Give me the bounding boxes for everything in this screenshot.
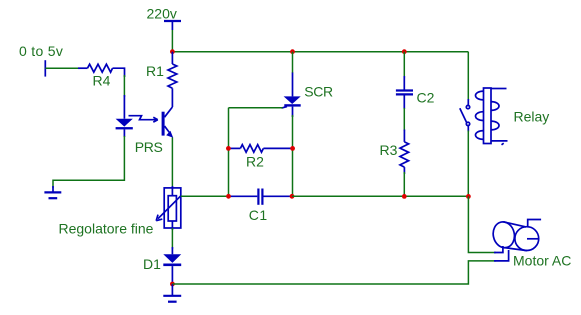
node junction D1-bottom rail: [170, 282, 175, 287]
SCR: [282, 52, 301, 117]
node junction R3 bottom: [402, 194, 407, 199]
wire C2 to R3: [403, 108, 405, 131]
wire trimmer to C1 node: [181, 195, 229, 197]
wire relay node down to motor: [468, 196, 496, 252]
svg-text:C2: C2: [417, 90, 435, 106]
svg-text:Motor AC: Motor AC: [513, 253, 571, 269]
wire motor lead B: [494, 250, 509, 261]
node junction relay branch bottom: [466, 194, 471, 199]
wire switch to bottom node: [467, 131, 469, 197]
wire gate node down: [228, 108, 230, 197]
capacitor C2: [396, 52, 413, 109]
wire input to R4: [45, 67, 80, 69]
220v supply terminal: [164, 21, 181, 30]
node junction R2 left: [226, 146, 231, 151]
wire LED cathode to ground: [53, 136, 124, 188]
svg-text:C1: C1: [249, 207, 268, 223]
node junction rail-C2: [402, 49, 407, 54]
input terminal tick: [44, 60, 46, 76]
svg-text:Regolatore fine: Regolatore fine: [59, 221, 154, 237]
capacitor C1: [230, 189, 290, 205]
svg-text:R1: R1: [146, 63, 164, 79]
resistor R4: [78, 64, 125, 77]
LED PRS (opto input): [116, 95, 133, 137]
relay coil: [475, 88, 507, 145]
wire bottom rail: [172, 261, 496, 284]
svg-text:R3: R3: [380, 142, 398, 158]
opto coupling arrow: [129, 116, 158, 122]
wire trimmer to D1: [171, 228, 173, 249]
svg-text:R4: R4: [93, 73, 111, 89]
wire emitter to trimmer: [171, 138, 173, 190]
svg-text:D1: D1: [143, 256, 161, 272]
node junction C1 right: [290, 194, 295, 199]
resistor R3: [400, 130, 409, 175]
svg-text:SCR: SCR: [304, 84, 333, 100]
motor AC: [491, 220, 541, 251]
resistor R1: [168, 52, 177, 107]
ground (bottom): [163, 284, 181, 302]
resistor R2: [229, 145, 292, 153]
svg-text:PRS: PRS: [135, 139, 163, 155]
ground (left): [44, 186, 61, 198]
svg-text:R2: R2: [246, 154, 264, 170]
switch (relay contact): [460, 99, 470, 132]
node junction rail-R1: [170, 49, 175, 54]
wire R4 to LED: [123, 75, 125, 97]
wire gate to node: [229, 107, 283, 109]
wire supply to rail: [171, 30, 173, 52]
wire motor lead A: [494, 246, 503, 253]
diode D1: [163, 247, 181, 284]
node junction R2 right: [290, 146, 295, 151]
node junction C1 left: [226, 194, 231, 199]
wire C1 to R3 node: [292, 195, 404, 197]
svg-text:Relay: Relay: [514, 109, 550, 125]
wire R3 to node: [403, 172, 405, 196]
svg-text:220v: 220v: [147, 6, 177, 22]
trimmer (Regolatore fine): [156, 186, 181, 230]
wire SCR cathode down: [292, 115, 294, 196]
wire R3 node to relay branch: [404, 195, 468, 197]
transistor PRS (opto output): [162, 107, 174, 138]
wire top rail: [172, 51, 468, 53]
node junction rail-SCR: [290, 49, 295, 54]
svg-text:0 to 5v: 0 to 5v: [19, 43, 63, 59]
wire rail corner down to switch: [467, 52, 469, 100]
